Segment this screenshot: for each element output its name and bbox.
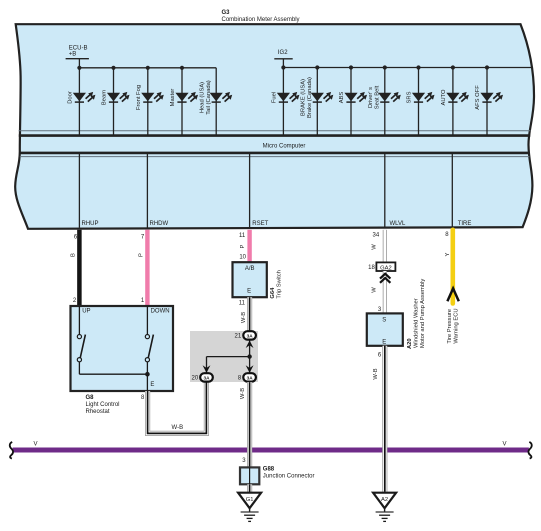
combination meter assembly G3 box [15,24,534,229]
indicator LED Front Fog [136,66,164,135]
svg-text:GA2: GA2 [380,265,392,271]
svg-text:Door: Door [68,91,74,104]
svg-text:11: 11 [239,300,246,306]
windshield washer motor A20 box [367,313,403,345]
junction connector internal wiring [207,340,252,373]
svg-text:11: 11 [239,233,246,239]
trip switch G64 box [233,262,267,297]
svg-text:W-B: W-B [241,312,247,323]
G8 DOWN switch [145,306,153,391]
label G8 light control rheostat [86,395,120,415]
wire W-B from A20 to ground A2 [382,346,387,492]
indicator LED Fuel [272,65,300,135]
meter output RHDW [141,154,169,241]
svg-text:10: 10 [239,255,246,261]
svg-text:3A: 3A [204,375,211,380]
ground G1 [238,493,261,522]
indicator LED AFS OFF [475,65,503,135]
svg-text:UP: UP [82,309,90,315]
wire P pink RHDW [139,230,148,307]
junction connector terminal 8 3A [238,373,256,382]
svg-text:21: 21 [235,334,242,340]
indicator LED SRS [407,65,435,135]
label A20 windshield washer motor and pump assembly [407,279,426,349]
svg-text:A/B: A/B [245,266,255,272]
svg-text:TIRE: TIRE [458,221,472,227]
junction connector terminal 20 3A [192,373,213,382]
svg-text:RSET: RSET [252,221,268,227]
connector arrow into 8 [246,365,254,373]
svg-text:E: E [150,382,154,388]
wire W-B from G8 to junction connector 20 [148,382,207,434]
svg-text:Driver' s: Driver' s [368,87,374,108]
svg-text:Front Fog: Front Fog [136,85,142,110]
svg-text:Master: Master [170,89,176,107]
indicator LED AUTO [441,65,469,135]
wire W-B from G64 to junction connector 21 [247,297,252,331]
svg-text:W: W [372,244,378,250]
wire W WLVL segment 1 [383,230,387,263]
wire B black RHUP [71,230,80,307]
indicator LED Head (USA) [200,68,233,135]
meter output RSET [239,154,269,239]
meter output TIRE [445,154,471,238]
meter output RHUP [74,154,99,241]
svg-text:AUTO: AUTO [441,89,447,105]
wire P pink RSET [239,230,249,263]
ground A2 [373,493,396,522]
svg-text:B: B [71,253,77,257]
micro computer bar borders [19,130,531,132]
svg-text:W-B: W-B [373,368,379,379]
G8 internal wire and junction [79,372,149,377]
svg-text:S: S [382,318,386,324]
svg-text:E: E [247,289,251,295]
svg-text:E: E [382,339,386,345]
svg-text:RHDW: RHDW [150,221,169,227]
svg-text:ECU-B: ECU-B [69,45,88,51]
svg-text:Beam: Beam [102,90,108,105]
svg-text:W-B: W-B [240,388,246,399]
svg-text:Micro Computer: Micro Computer [263,144,306,150]
wire V (violet bus) [10,441,532,458]
wire Y yellow TIRE [445,230,453,304]
svg-text:3A: 3A [247,333,254,338]
svg-text:+B: +B [69,52,77,58]
svg-text:Tire Pressure: Tire Pressure [447,309,453,344]
indicator LED Master [170,66,198,135]
connector arrow into 20 [203,365,211,373]
svg-text:Light Control: Light Control [86,402,120,408]
connector arrow into 21 [246,340,254,348]
svg-text:Fuel: Fuel [272,92,278,103]
svg-text:Motor and Pump Assembly: Motor and Pump Assembly [420,279,426,348]
svg-text:18: 18 [368,265,375,271]
svg-text:A2: A2 [381,497,388,503]
indicator LED Driver' s [368,65,401,135]
svg-text:P: P [139,253,145,257]
bus wire from ECU-B [79,67,216,69]
connector arrow to tire pressure warning ECU [447,288,458,301]
svg-text:BRAKE (USA): BRAKE (USA) [301,79,307,116]
svg-text:Combination Meter Assembly: Combination Meter Assembly [222,17,300,23]
svg-text:W: W [372,287,378,293]
svg-text:34: 34 [373,233,380,239]
indicator LED Beam [102,66,130,135]
junction connector shading area [190,331,258,382]
svg-text:RHUP: RHUP [82,221,99,227]
svg-text:20: 20 [192,376,199,382]
svg-text:Head (USA): Head (USA) [200,82,206,113]
svg-text:AFS OFF: AFS OFF [475,85,481,110]
svg-text:IG2: IG2 [278,50,288,56]
svg-text:3A: 3A [247,375,254,380]
label G88 junction connector [263,466,315,479]
svg-text:Tail (Canada): Tail (Canada) [206,80,212,115]
svg-text:G64: G64 [270,287,276,299]
indicator LED ABS [339,65,367,135]
svg-text:P: P [240,244,246,248]
connector GA2 [376,262,395,271]
svg-text:Junction Connector: Junction Connector [263,474,315,480]
indicator LED BRAKE (USA) [301,65,334,135]
G8 UP switch [77,306,85,374]
bus wire from IG2 [283,67,532,69]
svg-text:G3: G3 [222,10,231,16]
svg-text:SRS: SRS [407,91,413,103]
wire to ground G1 [247,484,252,493]
svg-text:ABS: ABS [339,92,345,104]
svg-text:Brake (Canada): Brake (Canada) [307,77,313,118]
junction connector terminal 21 3A [235,331,256,340]
light control rheostat G8 box [71,306,174,391]
svg-text:Y: Y [445,252,451,256]
meter output WLVL [373,154,407,239]
junction connector double chevron [380,274,390,279]
svg-text:Windshield Washer: Windshield Washer [414,298,420,348]
svg-text:G1: G1 [246,497,254,503]
svg-text:DOWN: DOWN [151,309,170,315]
wire W-B from connector 8 to G88 [247,382,252,467]
junction connector G88 box [240,467,259,484]
label G64 trip switch [270,270,282,298]
svg-text:A20: A20 [407,338,413,349]
svg-text:G8: G8 [86,395,95,401]
wire W WLVL segment 2 [383,271,387,313]
label tire pressure warning ECU [447,308,459,343]
svg-text:V: V [503,441,507,447]
svg-text:G88: G88 [263,466,275,472]
svg-text:Seat Belt: Seat Belt [375,85,381,109]
svg-text:V: V [34,441,38,447]
svg-text:WLVL: WLVL [390,221,407,227]
svg-text:W-B: W-B [172,425,184,431]
svg-text:Warning ECU: Warning ECU [453,308,459,343]
indicator LED Door [68,66,96,135]
svg-text:Rheostat: Rheostat [86,409,110,415]
svg-text:Trip Switch: Trip Switch [277,270,283,298]
